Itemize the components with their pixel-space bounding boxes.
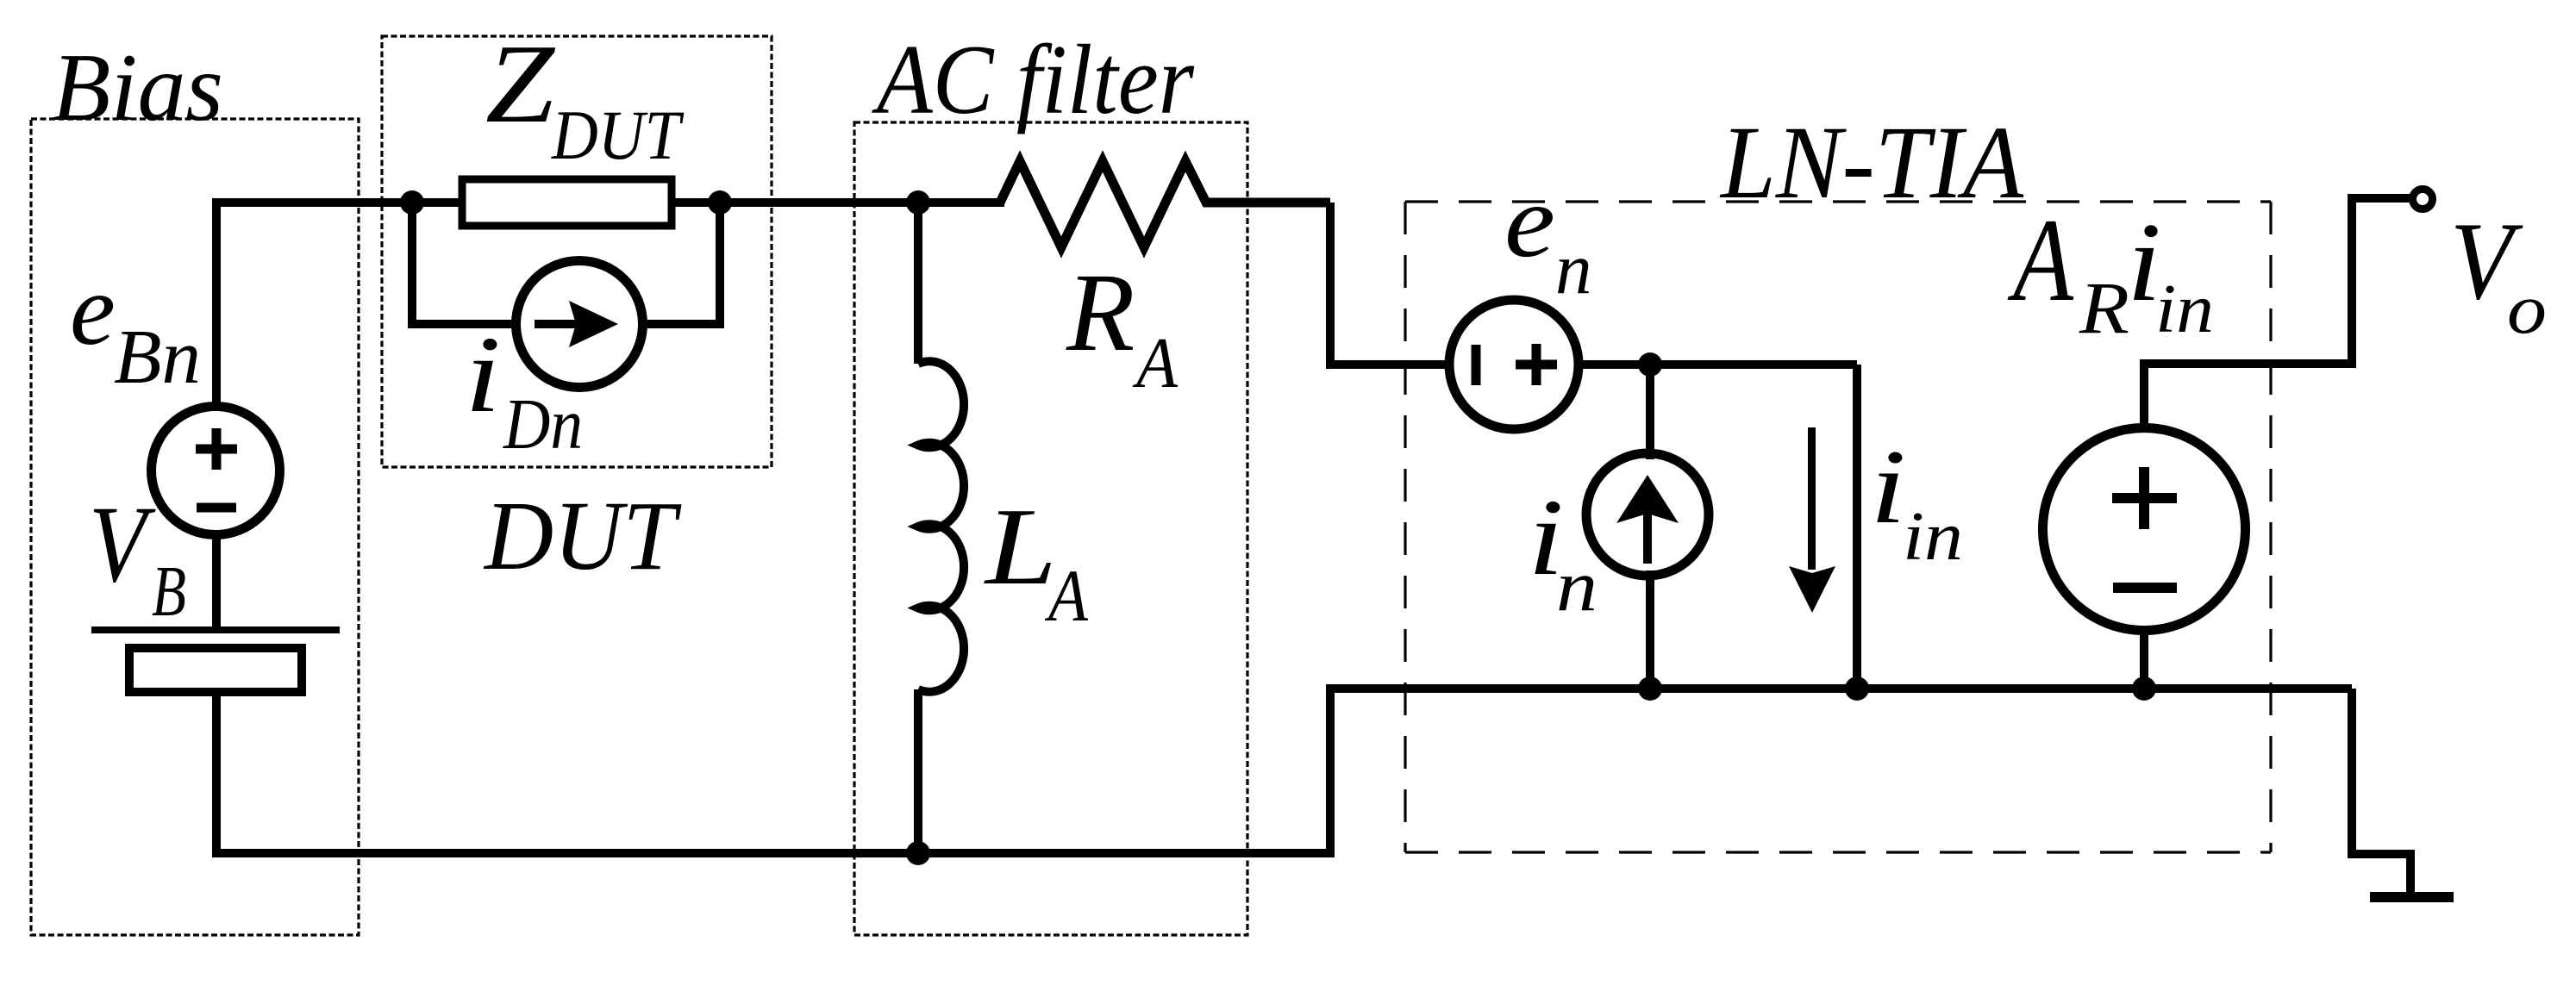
svg-text:i: i — [465, 315, 501, 435]
svg-text:o: o — [2507, 269, 2547, 348]
svg-text:Z: Z — [485, 22, 555, 147]
svg-text:Dn: Dn — [503, 384, 583, 464]
wire top-left horizontal — [212, 198, 412, 207]
svg-text:AC filter: AC filter — [872, 25, 1196, 134]
wire i_Dn branch right — [643, 203, 720, 324]
svg-text:R: R — [2079, 266, 2129, 349]
svg-text:DUT: DUT — [551, 96, 685, 174]
wire dep source bottom — [2140, 630, 2148, 689]
wire from e_Bn to battery — [212, 535, 221, 630]
svg-text:V: V — [89, 484, 156, 605]
node A left of DUT — [400, 190, 424, 215]
current source i_Dn — [516, 261, 643, 388]
svg-text:A: A — [2007, 194, 2073, 326]
wire i_n to bottom rail — [1646, 570, 1654, 689]
output terminal V_o — [2413, 190, 2433, 209]
node G bottom i_in — [1845, 676, 1869, 701]
svg-text:in: in — [2155, 271, 2214, 347]
svg-text:Bn: Bn — [114, 315, 201, 400]
battery V_B — [91, 627, 340, 692]
node E after e_n — [1638, 352, 1662, 377]
svg-text:Bias: Bias — [52, 34, 223, 141]
voltage source e_n — [1449, 300, 1579, 429]
node B right of DUT — [708, 190, 732, 215]
wire bottom rail step up — [1330, 689, 2352, 853]
node F bottom below i_n — [1638, 676, 1662, 701]
svg-text:in: in — [1903, 499, 1963, 575]
Bias box — [31, 119, 359, 935]
AC filter box — [854, 122, 1247, 935]
impedance Z_DUT — [462, 179, 672, 226]
wire to ground — [2352, 689, 2410, 894]
current source i_n — [1586, 453, 1709, 576]
wire DUT to AC filter — [720, 198, 1004, 207]
svg-text:e: e — [1504, 164, 1555, 279]
node H bottom below dep source — [2132, 676, 2156, 701]
node D bottom of AC filter — [906, 841, 930, 865]
wire node to Z_DUT — [412, 198, 722, 207]
svg-text:e: e — [70, 252, 116, 366]
svg-text:n: n — [1555, 228, 1592, 309]
resistor R_A — [1000, 161, 1330, 247]
ground — [2370, 892, 2454, 902]
wire i_Dn branch left — [412, 203, 516, 324]
current arrow i_in — [1789, 427, 1835, 613]
svg-text:L: L — [984, 485, 1057, 608]
wire left vertical upper — [212, 198, 221, 406]
svg-text:DUT: DUT — [483, 481, 682, 590]
wire battery to bottom rail — [212, 692, 221, 857]
wire e_n to node — [1579, 360, 1857, 369]
inductor L_A — [914, 198, 964, 853]
LN-TIA box — [1405, 202, 2271, 852]
wire dep source top — [2144, 198, 2413, 428]
svg-text:i: i — [1870, 427, 1906, 545]
DUT box — [382, 36, 772, 467]
svg-text:R: R — [1066, 251, 1135, 375]
svg-text:B: B — [152, 552, 186, 632]
dependent source A_R i_in — [2043, 428, 2246, 631]
wire i_in vertical — [1853, 365, 1861, 689]
voltage source e_Bn — [152, 407, 280, 535]
wire node E down to i_n — [1646, 365, 1654, 459]
svg-text:A: A — [1045, 554, 1089, 637]
wire AC filter right step down — [1330, 203, 1449, 365]
svg-text:LN-TIA: LN-TIA — [1719, 105, 2024, 221]
node C top of AC filter — [906, 190, 930, 215]
svg-text:A: A — [1132, 323, 1178, 403]
bottom rail left — [212, 849, 1335, 857]
svg-text:n: n — [1556, 545, 1597, 627]
